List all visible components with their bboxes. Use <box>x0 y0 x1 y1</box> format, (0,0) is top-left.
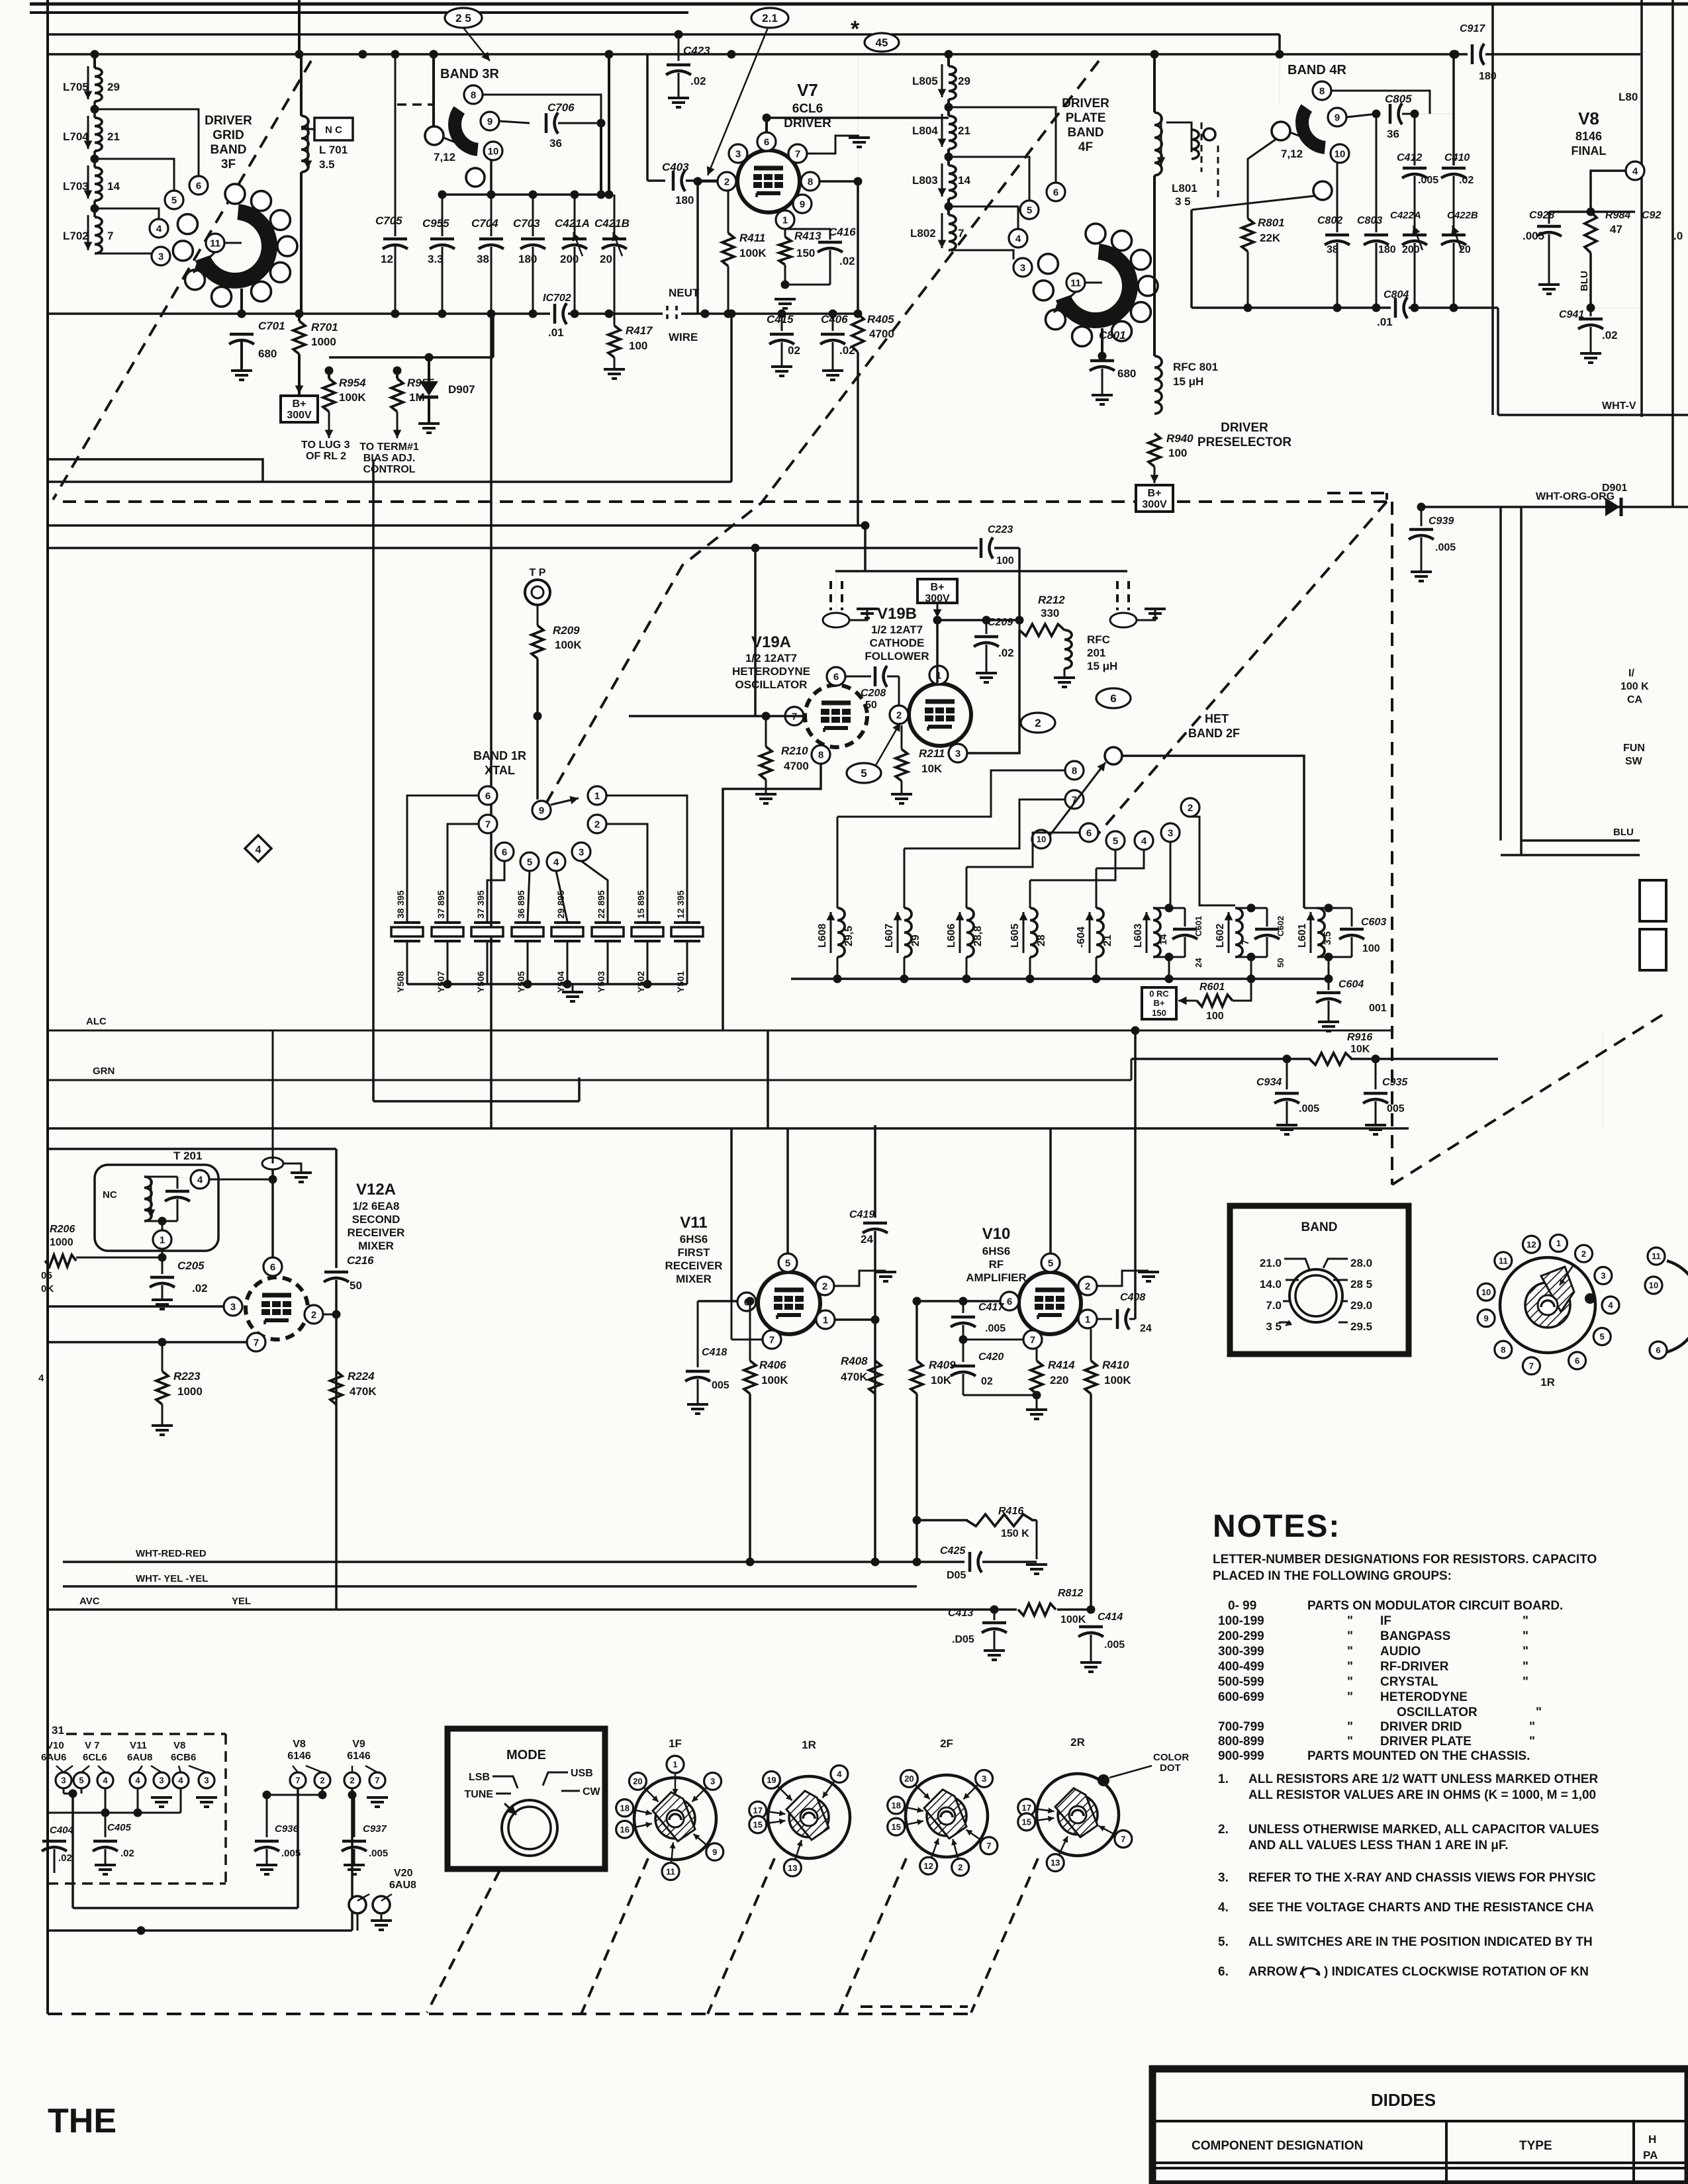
svg-text:180: 180 <box>1479 71 1497 82</box>
svg-text:100-199: 100-199 <box>1218 1614 1264 1628</box>
svg-text:.005: .005 <box>985 1323 1006 1334</box>
svg-text:L80: L80 <box>1618 91 1638 103</box>
svg-text:C602: C602 <box>1276 916 1286 936</box>
svg-text:2F: 2F <box>940 1737 953 1750</box>
svg-text:800-899: 800-899 <box>1218 1735 1264 1749</box>
svg-text:300V: 300V <box>925 593 950 604</box>
svg-text:BANGPASS: BANGPASS <box>1380 1629 1450 1643</box>
svg-text:OSCILLATOR: OSCILLATOR <box>735 678 808 691</box>
svg-text:": " <box>1523 1614 1528 1628</box>
svg-text:10: 10 <box>1037 835 1046 844</box>
svg-text:3: 3 <box>710 1776 715 1786</box>
svg-text:C414: C414 <box>1098 1612 1123 1623</box>
svg-text:2: 2 <box>1035 717 1041 729</box>
svg-text:7: 7 <box>295 1776 300 1786</box>
svg-text:2: 2 <box>1085 1281 1090 1292</box>
svg-text:.005: .005 <box>1104 1639 1125 1651</box>
svg-text:V7: V7 <box>797 80 818 100</box>
svg-text:20: 20 <box>633 1776 642 1786</box>
svg-text:6146: 6146 <box>287 1751 311 1762</box>
svg-text:17: 17 <box>753 1805 763 1815</box>
svg-text:I/: I/ <box>1628 668 1634 679</box>
svg-text:21: 21 <box>1102 934 1113 946</box>
svg-text:BLU: BLU <box>1613 827 1634 838</box>
svg-text:37 895: 37 895 <box>436 890 446 919</box>
svg-text:16: 16 <box>620 1825 629 1835</box>
svg-text:9: 9 <box>487 116 492 127</box>
svg-text:02: 02 <box>981 1376 993 1387</box>
svg-text:29: 29 <box>910 934 921 946</box>
svg-text:3: 3 <box>982 1774 986 1784</box>
svg-text:BAND 4R: BAND 4R <box>1288 63 1346 77</box>
svg-text:R406: R406 <box>759 1359 786 1371</box>
svg-text:C604: C604 <box>1338 979 1364 990</box>
svg-text:.02: .02 <box>58 1852 72 1864</box>
svg-text:28.0: 28.0 <box>1350 1257 1372 1269</box>
svg-text:28 5: 28 5 <box>1350 1278 1372 1291</box>
svg-text:50: 50 <box>1276 958 1286 968</box>
svg-text:GRID: GRID <box>212 128 244 142</box>
svg-text:R408: R408 <box>841 1355 868 1367</box>
svg-text:6: 6 <box>833 671 839 682</box>
svg-text:WIRE: WIRE <box>669 331 698 343</box>
svg-text:50: 50 <box>350 1279 362 1292</box>
svg-text:BIAS ADJ.: BIAS ADJ. <box>363 453 416 464</box>
svg-text:10: 10 <box>488 146 499 157</box>
svg-text:38 395: 38 395 <box>395 890 406 919</box>
svg-text:2R: 2R <box>1070 1736 1085 1749</box>
svg-text:100: 100 <box>1168 447 1187 459</box>
svg-text:HETERODYNE: HETERODYNE <box>732 665 810 678</box>
svg-text:L802: L802 <box>910 227 936 240</box>
svg-text:100K: 100K <box>1104 1374 1131 1387</box>
svg-text:PARTS ON MODULATOR CIRCUIT BOA: PARTS ON MODULATOR CIRCUIT BOARD. <box>1307 1599 1563 1613</box>
svg-text:100: 100 <box>1362 943 1380 954</box>
svg-text:R410: R410 <box>1102 1359 1129 1371</box>
svg-text:NC: NC <box>103 1189 117 1201</box>
svg-text:-604: -604 <box>1076 927 1087 948</box>
svg-text:1R: 1R <box>1540 1376 1555 1388</box>
svg-text:.02: .02 <box>1459 175 1474 186</box>
svg-text:500-599: 500-599 <box>1218 1675 1264 1689</box>
svg-text:ALC: ALC <box>86 1016 107 1027</box>
svg-text:R212: R212 <box>1038 594 1065 606</box>
svg-text:6: 6 <box>502 846 507 858</box>
svg-text:FIRST: FIRST <box>677 1246 710 1259</box>
svg-text:PA: PA <box>1643 2149 1658 2161</box>
svg-text:2: 2 <box>822 1281 827 1292</box>
svg-text:2: 2 <box>594 819 600 830</box>
svg-text:29,5: 29,5 <box>843 926 855 946</box>
svg-text:CATHODE: CATHODE <box>870 637 925 649</box>
svg-text:L801: L801 <box>1172 182 1197 195</box>
svg-text:.02: .02 <box>120 1848 134 1859</box>
svg-text:6.: 6. <box>1218 1965 1229 1979</box>
svg-text:WHT- YEL -YEL: WHT- YEL -YEL <box>136 1573 208 1584</box>
svg-text:1: 1 <box>594 790 600 801</box>
svg-text:3: 3 <box>61 1776 66 1786</box>
svg-text:PARTS MOUNTED ON THE CHASSIS.: PARTS MOUNTED ON THE CHASSIS. <box>1307 1749 1530 1763</box>
svg-text:T 201: T 201 <box>173 1150 202 1162</box>
svg-text:29 895: 29 895 <box>555 890 566 919</box>
svg-text:C704: C704 <box>471 217 498 230</box>
svg-text:3: 3 <box>1601 1271 1605 1281</box>
svg-text:PLATE: PLATE <box>1066 111 1106 125</box>
svg-text:18: 18 <box>620 1803 629 1813</box>
svg-text:400-499: 400-499 <box>1218 1660 1264 1674</box>
svg-text:FINAL: FINAL <box>1571 144 1607 158</box>
svg-text:V20: V20 <box>394 1868 413 1879</box>
svg-text:SECOND: SECOND <box>352 1213 400 1226</box>
svg-text:20: 20 <box>904 1774 914 1784</box>
svg-text:700-799: 700-799 <box>1218 1720 1264 1734</box>
svg-text:L702: L702 <box>63 230 89 242</box>
svg-text:14: 14 <box>958 174 970 187</box>
svg-text:L805: L805 <box>912 75 938 87</box>
svg-text:8146: 8146 <box>1575 130 1602 143</box>
svg-text:29.5: 29.5 <box>1350 1320 1372 1333</box>
svg-text:NEUT: NEUT <box>669 287 700 299</box>
svg-text:11: 11 <box>1499 1256 1508 1266</box>
svg-text:V10: V10 <box>46 1740 64 1751</box>
svg-text:18: 18 <box>891 1800 900 1810</box>
svg-text:R413: R413 <box>794 230 821 242</box>
svg-text:SEE THE VOLTAGE CHARTS AND TH: SEE THE VOLTAGE CHARTS AND THE RESISTANC… <box>1248 1901 1594 1915</box>
svg-text:6CL6: 6CL6 <box>83 1752 107 1763</box>
svg-text:17: 17 <box>1022 1803 1031 1813</box>
svg-text:5: 5 <box>79 1776 83 1786</box>
svg-text:10: 10 <box>1335 148 1346 159</box>
svg-text:C601: C601 <box>1194 916 1203 936</box>
svg-text:BLU: BLU <box>1579 271 1590 291</box>
svg-text:28,8: 28,8 <box>972 926 984 946</box>
svg-text:.02: .02 <box>1602 329 1618 341</box>
svg-text:100: 100 <box>1206 1011 1224 1022</box>
svg-text:V11: V11 <box>680 1214 707 1232</box>
svg-text:C404: C404 <box>50 1825 74 1836</box>
svg-text:5: 5 <box>1027 205 1032 216</box>
svg-text:V10: V10 <box>982 1225 1011 1243</box>
svg-text:47: 47 <box>1610 223 1622 236</box>
svg-text:FOLLOWER: FOLLOWER <box>865 650 929 662</box>
svg-text:6AU6: 6AU6 <box>41 1752 66 1763</box>
svg-text:D901: D901 <box>1602 482 1627 494</box>
svg-text:9: 9 <box>1335 112 1340 123</box>
svg-text:MIXER: MIXER <box>358 1240 394 1252</box>
svg-text:C801: C801 <box>1099 329 1126 341</box>
svg-text:14: 14 <box>1158 934 1169 945</box>
svg-text:300-399: 300-399 <box>1218 1645 1264 1659</box>
svg-text:DIDDES: DIDDES <box>1371 2090 1436 2110</box>
svg-text:": " <box>1347 1690 1353 1704</box>
svg-text:1: 1 <box>823 1314 828 1326</box>
svg-text:B+: B+ <box>1148 488 1162 499</box>
svg-text:C216: C216 <box>347 1254 374 1267</box>
svg-text:R409: R409 <box>929 1359 956 1371</box>
svg-text:7: 7 <box>769 1334 774 1345</box>
svg-text:8: 8 <box>818 749 823 760</box>
svg-text:C413: C413 <box>948 1608 973 1619</box>
svg-text:V8: V8 <box>293 1739 306 1750</box>
svg-text:D05: D05 <box>947 1570 966 1581</box>
svg-text:6: 6 <box>1110 692 1116 705</box>
svg-text:FUN: FUN <box>1623 743 1645 754</box>
svg-text:.005: .005 <box>1418 175 1438 186</box>
svg-text:100K: 100K <box>739 247 767 259</box>
svg-text:C934: C934 <box>1256 1077 1282 1088</box>
svg-text:C408: C408 <box>1120 1292 1145 1303</box>
svg-text:4: 4 <box>256 844 261 856</box>
svg-text:B+: B+ <box>293 398 306 410</box>
svg-text:3: 3 <box>955 748 961 759</box>
svg-text:001: 001 <box>1369 1003 1387 1014</box>
svg-text:BAND 1R: BAND 1R <box>473 749 526 762</box>
svg-text:2.: 2. <box>1218 1823 1229 1837</box>
svg-text:6HS6: 6HS6 <box>680 1233 708 1246</box>
svg-text:1F: 1F <box>669 1737 682 1750</box>
svg-text:BAND: BAND <box>1068 126 1104 140</box>
svg-text:15 μH: 15 μH <box>1087 660 1117 672</box>
svg-text:6CB6: 6CB6 <box>171 1752 196 1763</box>
svg-text:3.: 3. <box>1218 1871 1229 1885</box>
svg-text:12: 12 <box>1526 1240 1536 1250</box>
svg-text:T P: T P <box>530 567 546 578</box>
svg-text:BAND: BAND <box>1301 1220 1338 1234</box>
svg-text:C223: C223 <box>988 524 1013 535</box>
svg-text:R701: R701 <box>311 321 338 334</box>
svg-text:50: 50 <box>865 700 877 711</box>
svg-text:45: 45 <box>876 36 888 49</box>
svg-text:GRN: GRN <box>93 1066 115 1077</box>
svg-text:3: 3 <box>1020 262 1025 273</box>
svg-text:150: 150 <box>1152 1008 1166 1018</box>
svg-text:C420: C420 <box>978 1351 1004 1363</box>
svg-text:29: 29 <box>107 81 120 93</box>
svg-text:.02: .02 <box>839 255 855 267</box>
svg-text:1: 1 <box>673 1760 677 1770</box>
svg-text:9: 9 <box>1483 1313 1488 1323</box>
svg-text:V19A: V19A <box>751 633 791 651</box>
svg-text:1/2 12AT7: 1/2 12AT7 <box>745 652 797 664</box>
svg-text:4: 4 <box>837 1769 842 1779</box>
svg-text:.005: .005 <box>1299 1103 1319 1115</box>
svg-text:BAND 3R: BAND 3R <box>440 67 499 81</box>
svg-text:180: 180 <box>518 253 537 265</box>
svg-text:5: 5 <box>1048 1257 1053 1269</box>
svg-text:Y501: Y501 <box>675 971 686 993</box>
svg-text:OF RL 2: OF RL 2 <box>306 451 346 462</box>
svg-text:C418: C418 <box>702 1347 727 1358</box>
svg-text:": " <box>1523 1660 1528 1674</box>
svg-text:11: 11 <box>1070 277 1081 289</box>
svg-text:.01: .01 <box>1377 316 1393 328</box>
svg-text:1.: 1. <box>1218 1772 1229 1786</box>
svg-text:7: 7 <box>1529 1361 1534 1371</box>
svg-text:MIXER: MIXER <box>676 1273 712 1285</box>
svg-text:6HS6: 6HS6 <box>982 1245 1011 1257</box>
svg-text:R206: R206 <box>50 1224 75 1235</box>
svg-text:C802: C802 <box>1317 215 1342 226</box>
svg-text:COLOR: COLOR <box>1153 1752 1189 1763</box>
svg-text:1/2 6EA8: 1/2 6EA8 <box>353 1200 400 1212</box>
svg-text:100K: 100K <box>339 391 366 404</box>
svg-text:C205: C205 <box>177 1259 205 1272</box>
svg-text:600-699: 600-699 <box>1218 1690 1264 1704</box>
svg-text:9: 9 <box>800 199 805 210</box>
svg-text:CRYSTAL: CRYSTAL <box>1380 1675 1438 1689</box>
svg-text:4700: 4700 <box>784 760 809 772</box>
svg-text:5: 5 <box>861 767 867 780</box>
svg-text:21.0: 21.0 <box>1260 1257 1282 1269</box>
svg-text:R411: R411 <box>739 232 765 244</box>
svg-text:0- 99: 0- 99 <box>1228 1599 1256 1613</box>
svg-text:WHT-V: WHT-V <box>1602 400 1636 412</box>
svg-text:B+: B+ <box>931 582 945 593</box>
svg-text:R812: R812 <box>1058 1588 1083 1599</box>
svg-text:3.5: 3.5 <box>319 158 335 171</box>
svg-text:6: 6 <box>1053 187 1058 198</box>
svg-text:220: 220 <box>1050 1374 1068 1387</box>
svg-text:NOTES:: NOTES: <box>1213 1509 1340 1544</box>
svg-text:H: H <box>1648 2133 1656 2146</box>
svg-text:WHT-RED-RED: WHT-RED-RED <box>136 1548 207 1559</box>
svg-text:13: 13 <box>788 1863 797 1873</box>
svg-text:200: 200 <box>560 253 579 265</box>
svg-text:C422A: C422A <box>1390 210 1421 221</box>
svg-text:DRIVER DRID: DRIVER DRID <box>1380 1720 1462 1734</box>
svg-text:8: 8 <box>1501 1345 1505 1355</box>
svg-text:15 895: 15 895 <box>635 890 646 919</box>
svg-text:4: 4 <box>1141 835 1147 846</box>
svg-text:100K: 100K <box>761 1374 788 1387</box>
svg-text:100K: 100K <box>1060 1614 1086 1625</box>
svg-text:05: 05 <box>41 1270 52 1281</box>
svg-text:4: 4 <box>178 1776 183 1786</box>
svg-text:10K: 10K <box>1350 1044 1370 1055</box>
svg-text:15: 15 <box>891 1822 900 1832</box>
svg-text:.005: .005 <box>1435 542 1456 553</box>
svg-text:C425: C425 <box>940 1545 966 1557</box>
svg-text:C803: C803 <box>1357 215 1382 226</box>
svg-text:) INDICATES CLOCKWISE ROTATION: ) INDICATES CLOCKWISE ROTATION OF KN <box>1324 1965 1589 1979</box>
svg-text:6CL6: 6CL6 <box>792 102 823 116</box>
svg-text:4F: 4F <box>1078 140 1093 154</box>
svg-text:": " <box>1529 1720 1535 1734</box>
svg-text:2 5: 2 5 <box>455 12 471 24</box>
svg-text:C805: C805 <box>1385 93 1412 105</box>
svg-text:4: 4 <box>38 1373 44 1384</box>
svg-text:R416: R416 <box>998 1506 1023 1517</box>
svg-text:10K: 10K <box>921 762 943 775</box>
svg-text:DRIVER: DRIVER <box>1221 421 1268 435</box>
svg-text:5.: 5. <box>1218 1935 1229 1949</box>
svg-text:CONTROL: CONTROL <box>363 464 415 475</box>
svg-text:L606: L606 <box>946 923 957 948</box>
svg-text:02: 02 <box>788 344 800 357</box>
svg-text:100K: 100K <box>555 639 582 651</box>
svg-text:19: 19 <box>767 1775 776 1785</box>
svg-text:1000: 1000 <box>311 336 336 348</box>
svg-text:38: 38 <box>477 253 489 265</box>
svg-text:RFC 801: RFC 801 <box>1173 361 1218 373</box>
svg-text:C412: C412 <box>1397 152 1422 163</box>
svg-text:150: 150 <box>796 247 815 259</box>
svg-text:3: 3 <box>1168 827 1173 839</box>
svg-text:20: 20 <box>600 253 612 265</box>
svg-text:DRIVER: DRIVER <box>1062 97 1109 111</box>
svg-text:4: 4 <box>197 1174 203 1185</box>
svg-text:V12A: V12A <box>356 1181 396 1199</box>
svg-text:300V: 300V <box>287 410 312 421</box>
svg-text:1: 1 <box>1085 1314 1090 1325</box>
svg-text:ALL RESISTORS ARE 1/2 WATT UNL: ALL RESISTORS ARE 1/2 WATT UNLESS MARKED… <box>1248 1772 1598 1786</box>
svg-text:RF-DRIVER: RF-DRIVER <box>1380 1660 1449 1674</box>
svg-text:LSB: LSB <box>469 1772 490 1783</box>
svg-text:7: 7 <box>375 1776 379 1786</box>
svg-text:180: 180 <box>675 194 694 206</box>
svg-text:XTAL: XTAL <box>485 764 515 777</box>
svg-text:3: 3 <box>735 148 741 159</box>
svg-text:": " <box>1347 1735 1353 1749</box>
svg-text:7: 7 <box>958 227 964 240</box>
svg-text:7.0: 7.0 <box>1266 1299 1282 1312</box>
svg-text:2: 2 <box>896 709 902 721</box>
svg-text:.02: .02 <box>998 647 1014 659</box>
svg-text:12: 12 <box>381 253 393 265</box>
svg-text:5: 5 <box>527 856 532 868</box>
svg-text:21: 21 <box>107 130 120 143</box>
svg-text:6AU8: 6AU8 <box>127 1752 152 1763</box>
svg-text:1: 1 <box>1556 1238 1561 1248</box>
svg-text:2: 2 <box>311 1309 316 1320</box>
svg-text:11: 11 <box>210 238 220 249</box>
svg-text:R223: R223 <box>173 1370 201 1383</box>
svg-text:RECEIVER: RECEIVER <box>348 1226 405 1239</box>
svg-text:13: 13 <box>1051 1858 1060 1868</box>
svg-text:C410: C410 <box>1444 152 1470 163</box>
svg-text:R224: R224 <box>348 1370 375 1383</box>
svg-text:C939: C939 <box>1429 516 1454 527</box>
svg-text:2: 2 <box>724 176 729 187</box>
svg-text:10: 10 <box>1649 1281 1658 1291</box>
svg-text:": " <box>1347 1660 1353 1674</box>
svg-text:V8: V8 <box>1578 109 1599 128</box>
svg-text:330: 330 <box>1041 607 1059 619</box>
svg-text:8: 8 <box>471 89 476 101</box>
svg-text:12 395: 12 395 <box>675 890 686 919</box>
svg-text:4.: 4. <box>1218 1901 1229 1915</box>
svg-text:C701: C701 <box>258 320 285 332</box>
svg-text:3: 3 <box>159 1776 164 1786</box>
svg-text:.01: .01 <box>548 326 564 339</box>
svg-text:4: 4 <box>156 223 162 234</box>
svg-text:9: 9 <box>712 1847 717 1857</box>
svg-text:IF: IF <box>1380 1614 1391 1628</box>
svg-text:15: 15 <box>753 1820 763 1830</box>
svg-text:L803: L803 <box>912 174 938 187</box>
svg-text:V19B: V19B <box>877 605 917 623</box>
svg-text:4700: 4700 <box>869 328 894 340</box>
svg-text:R211: R211 <box>919 747 945 760</box>
svg-text:7: 7 <box>986 1841 991 1850</box>
svg-text:V8: V8 <box>173 1740 185 1751</box>
svg-text:COMPONENT DESIGNATION: COMPONENT DESIGNATION <box>1192 2139 1363 2153</box>
svg-text:4: 4 <box>1608 1300 1613 1310</box>
svg-text:.02: .02 <box>192 1282 208 1295</box>
svg-text:5: 5 <box>171 195 177 206</box>
svg-text:4: 4 <box>1632 165 1638 177</box>
svg-text:": " <box>1529 1735 1535 1749</box>
